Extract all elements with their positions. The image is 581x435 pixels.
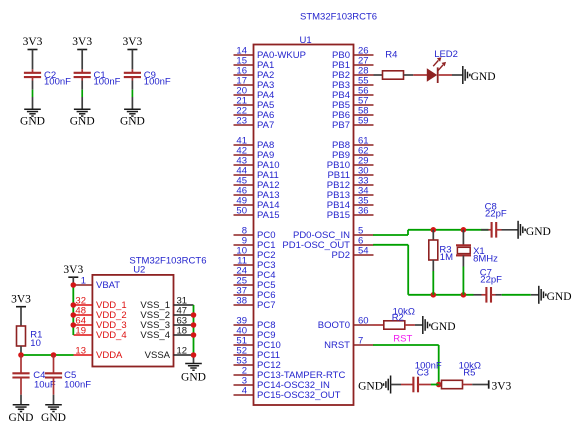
U1 pin 24 PC4 [234,265,276,281]
IC U2 STM32F103RCT6 power body [92,265,173,367]
svg-text:38: 38 [236,295,247,306]
svg-text:R2: R2 [392,313,404,324]
junction VSS_3 [191,322,197,328]
U1 pin 23 PA7 [234,115,275,131]
svg-text:VSS_4: VSS_4 [140,330,170,341]
resistor R4 [383,50,404,80]
svg-text:PC15-OSC32_OUT: PC15-OSC32_OUT [257,390,341,401]
U1 pin 11 PC3 [234,255,276,271]
junction X1 top [461,227,467,233]
U1 pin 55 PB3 [332,75,373,91]
U1 pin 16 PA2 [234,65,275,81]
U2 pin 63 VSS_3 [140,315,193,331]
U1 pin 33 PB12 [327,175,374,191]
U1 pin 37 PC6 [234,285,276,301]
U1 pin 2 PC13-TAMPER-RTC [234,365,346,381]
ground (C8) [518,221,551,239]
svg-text:GND: GND [547,291,572,303]
U2 pin 18 VSS_4 [140,325,193,341]
svg-text:PA7: PA7 [257,120,274,131]
svg-text:R5: R5 [463,367,475,378]
power port 3V3 (U2 VBAT) [63,264,83,285]
svg-text:12: 12 [177,345,188,356]
capacitor C7 22pF [474,267,503,302]
U2 pin 48 VDD_2 [74,305,127,321]
U1 pin 8 PC0 [234,225,276,241]
U1 pin 56 PB4 [332,85,373,101]
ground (C3) [358,376,391,394]
svg-text:22pF: 22pF [485,209,507,220]
svg-text:U1: U1 [300,35,312,46]
wire R4 to LED2 [404,74,428,76]
wire C3 to node [431,384,439,386]
junction C5 [51,352,57,358]
svg-text:GND: GND [120,116,145,128]
svg-text:7: 7 [358,335,363,346]
U1 pin 20 PA4 [234,85,275,101]
svg-text:100nF: 100nF [94,77,121,88]
svg-text:C3: C3 [417,367,429,378]
capacitor C1 100nF [74,69,121,87]
svg-text:GND: GND [181,372,206,384]
capacitor C4 10uF [12,355,55,395]
U1 pin 41 PA8 [234,135,275,151]
svg-text:RST: RST [393,334,412,345]
U1 pin 9 PC1 [234,235,276,251]
svg-text:GND: GND [431,321,456,333]
U1 pin 60 BOOT0 [318,315,374,331]
svg-text:VDD_4: VDD_4 [96,330,127,341]
U1 pin 26 PB0 [332,45,373,61]
wire PD1-OSC_OUT to crystal rail [373,245,473,295]
svg-text:1M: 1M [440,252,453,263]
capacitor C9 100nF [124,69,171,87]
svg-text:1: 1 [81,275,86,286]
wire GND to C3 [391,384,401,386]
svg-text:PD2: PD2 [332,250,350,261]
svg-text:VBAT: VBAT [96,280,120,291]
power port 3V3 (C2) [23,36,43,58]
svg-text:LED2: LED2 [434,49,458,60]
svg-text:10uF: 10uF [34,379,56,390]
IC U1 STM32F103RCT6 body [254,35,354,405]
junction VSSA [191,352,197,358]
U1 pin 15 PA1 [234,55,275,71]
ground (C7) [539,286,572,304]
U1 pin 6 PD1-OSC_OUT [282,235,373,251]
junction R3 top [431,227,437,233]
power port 3V3 (C9) [122,36,142,58]
power port 3V3 (R5) [489,380,512,392]
svg-text:GND: GND [41,412,66,424]
svg-text:3V3: 3V3 [492,380,512,392]
svg-text:18: 18 [177,325,188,336]
U2 pin 13 VDDA [74,345,124,361]
op part label STM32F103RCT6 (U2) [129,256,206,267]
wire C9 to GND [131,81,133,110]
svg-text:10: 10 [30,338,41,349]
U1 pin 36 PB15 [327,205,374,221]
wire NRST net RST [373,334,439,385]
ground (C4) [9,405,34,424]
U1 pin 42 PA9 [234,145,275,161]
junction VSS_4 [191,332,197,338]
U1 pin 38 PC7 [234,295,276,311]
svg-text:GND: GND [358,381,383,393]
LED LED2 [427,49,458,83]
U1 pin 53 PC12 [234,355,281,371]
svg-text:GND: GND [471,71,496,83]
svg-text:36: 36 [358,205,369,216]
U1 pin 44 PA11 [234,165,279,181]
ground (LED2) [463,66,496,84]
svg-text:22pF: 22pF [480,275,502,286]
ground (C5) [41,405,66,424]
svg-text:R4: R4 [385,50,397,61]
U1 pin 29 PB10 [327,155,374,171]
U1 pin 46 PA13 [234,185,280,201]
capacitor C5 100nF [45,355,91,395]
wire C1 to GND [81,81,83,110]
svg-text:100nF: 100nF [64,379,91,390]
ground (C2) [20,109,45,127]
U2 pin 12 VSSA [145,345,194,361]
junction VBAT [71,282,77,288]
U1 pin 45 PA12 [234,175,280,191]
svg-text:3V3: 3V3 [23,36,43,48]
svg-text:3V3: 3V3 [11,293,31,305]
svg-text:13: 13 [75,345,86,356]
U1 pin 34 PB13 [327,185,374,201]
crystal X1 8MHz [456,230,498,295]
U1 pin 27 PB1 [332,55,373,71]
wire PB2 to R4 [374,74,383,76]
U1 pin 30 PB11 [327,165,373,181]
svg-text:59: 59 [358,115,369,126]
resistor R1 10 [17,326,43,355]
svg-text:60: 60 [358,315,369,326]
svg-text:U2: U2 [133,265,145,276]
wire BOOT0 to R2 [374,324,384,326]
op part label STM32F103RCT6 (U1) [300,12,377,23]
ground (R2) [423,316,456,334]
wire 3V3 to C1 [81,58,83,69]
wire LED2 to GND [439,74,463,76]
wire C7 to GND [502,294,539,296]
ground (C1) [70,109,95,127]
U1 pin 10 PC2 [234,245,276,261]
resistor R2 10k [384,306,415,329]
svg-text:8MHz: 8MHz [473,254,498,265]
svg-text:PC7: PC7 [257,300,275,311]
U1 pin 59 PB7 [332,115,373,131]
U1 pin 43 PA10 [234,155,280,171]
wire 3V3 to C2 [32,58,34,69]
svg-text:4: 4 [242,385,247,396]
U1 pin 61 PB8 [332,135,373,151]
U2 pin 31 VSS_1 [140,295,193,311]
wire 3V3/VBAT to VDD pins [72,285,74,335]
svg-text:GND: GND [9,412,34,424]
wire 3V3 to C9 [131,58,133,69]
junction X1 bottom [461,292,467,298]
svg-text:GND: GND [526,226,551,238]
U1 pin 40 PC9 [234,325,276,341]
U1 pin 54 PD2 [332,245,374,261]
U1 pin 39 PC8 [234,315,276,331]
U1 pin 21 PA5 [234,95,275,111]
svg-text:50: 50 [236,205,247,216]
power port 3V3 (R1) [11,293,31,326]
capacitor C3 100nF [401,361,442,393]
U1 pin 57 PB5 [332,95,373,111]
U1 pin 62 PB9 [332,145,373,161]
U2 pin 64 VDD_3 [74,315,127,331]
svg-text:BOOT0: BOOT0 [318,320,350,331]
junction VDD_3 [71,322,77,328]
svg-text:PB15: PB15 [327,210,350,221]
wire C2 to GND [32,81,34,110]
ground (U2 VSS) [181,364,206,384]
U1 pin 50 PA15 [234,205,280,221]
junction R1/C4 [18,352,24,358]
U1 pin 25 PC5 [234,275,276,291]
svg-text:VDDA: VDDA [96,350,123,361]
U1 pin 17 PA3 [234,75,275,91]
U1 pin 4 PC15-OSC32_OUT [234,385,341,401]
wire C8 to GND [502,229,519,231]
U1 pin 22 PA6 [234,105,275,121]
resistor R5 10k [439,361,481,389]
wire C5 to GND [53,395,55,405]
U1 pin 7 NRST [324,335,373,351]
svg-text:3V3: 3V3 [63,264,83,276]
svg-text:54: 54 [358,245,369,256]
wire VSS pins to GND [193,305,195,364]
junction VDD_1 [71,302,77,308]
U2 pin 32 VDD_1 [74,295,127,311]
U1 pin 49 PA14 [234,195,280,211]
U2 pin 47 VSS_2 [140,305,193,321]
svg-text:100nF: 100nF [44,77,71,88]
power port 3V3 (C1) [72,36,92,58]
wire C4 to GND [20,395,22,405]
svg-text:STM32F103RCT6: STM32F103RCT6 [300,12,377,23]
capacitor C8 22pF [481,201,507,237]
svg-text:NRST: NRST [324,340,350,351]
svg-text:23: 23 [236,115,247,126]
svg-text:100nF: 100nF [144,77,171,88]
wire R5 to 3V3 [463,384,489,386]
U1 pin 51 PC10 [234,335,281,351]
svg-text:PB7: PB7 [332,120,350,131]
junction C3/R5 node [436,382,442,388]
junction VDD_2 [71,312,77,318]
resistor R3 1M [429,230,453,295]
U2 pin 19 VDD_4 [74,325,127,341]
U1 pin 5 PD0-OSC_IN [293,225,374,241]
svg-text:19: 19 [75,325,86,336]
U1 pin 3 PC14-OSC32_IN [234,375,331,391]
svg-text:3V3: 3V3 [122,36,142,48]
U1 pin 28 PB2 [332,65,373,81]
svg-text:3V3: 3V3 [72,36,92,48]
svg-text:VSSA: VSSA [145,350,171,361]
wire PD0-OSC_IN to crystal rail [373,230,488,235]
U1 pin 14 PA0-WKUP [234,45,306,61]
capacitor C2 100nF [24,69,71,87]
junction VSS_2 [191,312,197,318]
U1 pin 35 PB14 [327,195,374,211]
U1 pin 52 PC11 [234,345,281,361]
ground (C9) [120,109,145,127]
wire VDDA rail [21,354,74,356]
svg-text:GND: GND [70,116,95,128]
svg-text:PA15: PA15 [257,210,280,221]
U2 pin 1 VBAT [73,275,120,291]
junction R3 bottom [431,292,437,298]
U1 pin 58 PB6 [332,105,373,121]
wire R2 to GND [405,324,423,326]
svg-text:GND: GND [20,116,45,128]
